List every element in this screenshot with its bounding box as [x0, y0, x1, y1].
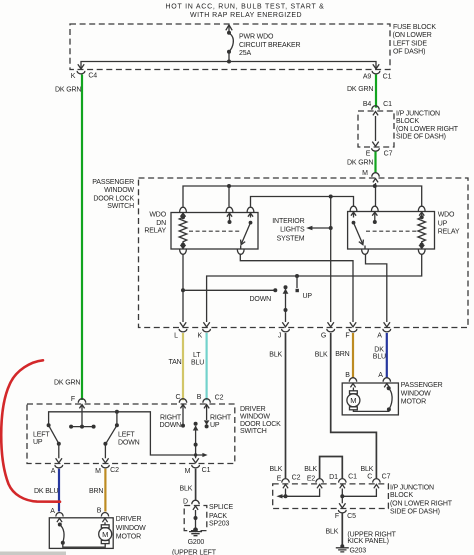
svg-text:DK: DK [374, 346, 384, 353]
svg-text:MOTOR: MOTOR [401, 399, 426, 406]
svg-text:SP203: SP203 [209, 520, 230, 527]
svg-text:BLK: BLK [326, 528, 339, 535]
svg-text:PASSENGER: PASSENGER [401, 382, 443, 389]
svg-text:M: M [95, 468, 101, 475]
svg-text:DK GRN: DK GRN [55, 87, 81, 94]
svg-text:I/P JUNCTION: I/P JUNCTION [396, 111, 440, 118]
svg-text:C7: C7 [384, 151, 393, 158]
svg-text:B4: B4 [363, 101, 372, 108]
svg-text:BLK: BLK [304, 466, 317, 473]
svg-text:LT: LT [193, 352, 201, 359]
svg-text:TAN: TAN [169, 359, 182, 366]
svg-text:C2: C2 [110, 467, 119, 474]
svg-text:A: A [50, 508, 55, 515]
svg-text:MOTOR: MOTOR [116, 533, 141, 540]
svg-text:BLK: BLK [361, 466, 374, 473]
svg-text:PASSENGER: PASSENGER [92, 179, 134, 186]
svg-text:LEFT SIDE: LEFT SIDE [393, 40, 427, 47]
svg-text:HOT IN ACC, RUN, BULB TEST, ST: HOT IN ACC, RUN, BULB TEST, START & [165, 4, 324, 11]
svg-text:WITH RAP RELAY ENERGIZED: WITH RAP RELAY ENERGIZED [190, 12, 302, 19]
svg-text:G200: G200 [188, 539, 205, 546]
svg-text:J: J [278, 333, 281, 340]
svg-text:SIDE OF DASH): SIDE OF DASH) [396, 133, 446, 140]
svg-text:OF DASH): OF DASH) [393, 49, 425, 56]
svg-text:BLU: BLU [373, 353, 386, 360]
svg-text:F: F [345, 333, 349, 340]
svg-text:A: A [378, 372, 383, 379]
svg-text:KICK PANEL): KICK PANEL) [347, 538, 388, 545]
svg-text:UP: UP [210, 422, 220, 429]
svg-text:BRN: BRN [89, 488, 103, 495]
svg-text:BLK: BLK [180, 485, 193, 492]
svg-text:BLK: BLK [269, 352, 282, 359]
svg-text:WDO: WDO [438, 212, 455, 219]
svg-text:C1: C1 [383, 101, 392, 108]
svg-text:RIGHT: RIGHT [160, 415, 182, 422]
svg-text:DK GRN: DK GRN [54, 380, 80, 387]
svg-text:SYSTEM: SYSTEM [277, 235, 305, 242]
svg-text:DN: DN [156, 220, 166, 227]
svg-text:C4: C4 [88, 73, 97, 80]
svg-text:SPLICE: SPLICE [209, 504, 233, 511]
svg-text:(ON LOWER RIGHT: (ON LOWER RIGHT [390, 500, 453, 507]
svg-text:C2: C2 [292, 474, 301, 481]
svg-text:DOOR LOCK: DOOR LOCK [240, 421, 281, 428]
svg-text:E2: E2 [307, 475, 316, 482]
svg-text:WDO: WDO [149, 212, 166, 219]
svg-text:BLK: BLK [270, 466, 283, 473]
svg-text:DRIVER: DRIVER [240, 406, 266, 413]
svg-text:B: B [97, 507, 102, 514]
svg-text:PWR WDO: PWR WDO [239, 34, 274, 41]
svg-text:BLK: BLK [315, 352, 328, 359]
svg-text:PACK: PACK [209, 513, 227, 520]
svg-text:BRN: BRN [335, 351, 349, 358]
svg-text:C1: C1 [348, 473, 357, 480]
svg-text:K: K [71, 73, 76, 80]
svg-text:LIGHTS: LIGHTS [280, 227, 305, 234]
svg-text:DK GRN: DK GRN [347, 86, 373, 93]
svg-text:K: K [198, 333, 203, 340]
svg-text:WINDOW: WINDOW [104, 187, 134, 194]
svg-text:LEFT: LEFT [33, 431, 50, 438]
svg-text:B: B [197, 394, 202, 401]
svg-text:M: M [350, 396, 356, 405]
svg-text:C7: C7 [382, 473, 391, 480]
svg-text:25A: 25A [239, 50, 251, 57]
svg-text:C1: C1 [383, 74, 392, 81]
svg-text:BLU: BLU [191, 359, 204, 366]
svg-text:DOWN: DOWN [250, 296, 272, 303]
svg-text:G203: G203 [350, 547, 367, 554]
svg-text:M: M [102, 530, 108, 539]
svg-text:CIRCUIT BREAKER: CIRCUIT BREAKER [239, 42, 301, 49]
svg-text:F: F [335, 513, 339, 520]
svg-text:RELAY: RELAY [438, 228, 460, 235]
svg-text:M: M [185, 468, 191, 475]
svg-text:(ON LOWER RIGHT: (ON LOWER RIGHT [396, 126, 459, 133]
svg-text:WINDOW: WINDOW [116, 525, 146, 532]
svg-text:I/P JUNCTION: I/P JUNCTION [390, 484, 434, 491]
svg-text:SIDE OF DASH): SIDE OF DASH) [390, 509, 440, 516]
svg-text:A: A [377, 333, 382, 340]
svg-text:D1: D1 [329, 474, 338, 481]
svg-text:DOWN: DOWN [118, 439, 140, 446]
svg-text:UP: UP [33, 439, 43, 446]
svg-text:M: M [362, 170, 368, 177]
svg-text:WINDOW: WINDOW [240, 413, 270, 420]
svg-text:UP: UP [303, 293, 313, 300]
svg-text:C: C [367, 473, 372, 480]
svg-text:INTERIOR: INTERIOR [272, 218, 304, 225]
svg-text:SWITCH: SWITCH [107, 203, 134, 210]
svg-text:DRIVER: DRIVER [116, 516, 142, 523]
svg-text:(UPPER LEFT: (UPPER LEFT [172, 549, 217, 555]
svg-text:LEFT: LEFT [118, 431, 135, 438]
svg-text:DK GRN: DK GRN [347, 160, 373, 167]
svg-text:DOOR LOCK: DOOR LOCK [93, 195, 134, 202]
svg-text:WINDOW: WINDOW [401, 390, 431, 397]
svg-text:FUSE BLOCK: FUSE BLOCK [393, 24, 436, 31]
svg-text:B: B [345, 372, 350, 379]
svg-text:BLOCK: BLOCK [390, 492, 413, 499]
svg-text:G: G [321, 333, 326, 340]
svg-text:D: D [183, 498, 188, 505]
svg-text:UP: UP [438, 220, 448, 227]
svg-text:DOWN: DOWN [160, 422, 182, 429]
svg-text:A9: A9 [363, 74, 372, 81]
svg-text:A: A [51, 468, 56, 475]
svg-text:L: L [174, 333, 178, 340]
svg-text:(ON LOWER: (ON LOWER [393, 32, 432, 39]
svg-text:C5: C5 [347, 513, 356, 520]
svg-text:C1: C1 [202, 467, 211, 474]
svg-text:E: E [277, 475, 282, 482]
svg-text:E: E [366, 151, 371, 158]
svg-text:SWITCH: SWITCH [240, 428, 267, 435]
svg-text:BLOCK: BLOCK [396, 118, 419, 125]
svg-text:C2: C2 [215, 395, 224, 402]
svg-text:DK BLU: DK BLU [34, 488, 58, 495]
svg-text:RELAY: RELAY [144, 228, 166, 235]
svg-text:F: F [71, 396, 75, 403]
svg-text:RIGHT: RIGHT [210, 415, 232, 422]
